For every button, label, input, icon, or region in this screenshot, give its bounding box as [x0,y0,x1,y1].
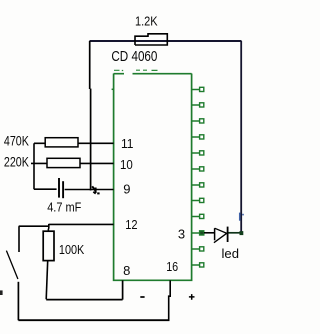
svg-text:1.2K: 1.2K [135,13,158,28]
svg-text:3: 3 [178,226,185,241]
resistor R2 470K: wires and body [34,142,114,144]
IC right-side pin stubs with terminal squares [192,90,200,266]
wire pin 16 drop [169,280,171,320]
stray green dashes above IC top edge [114,69,158,71]
wire 100K bottom lead [46,261,48,300]
svg-text:9: 9 [123,181,130,196]
svg-text:11: 11 [121,136,134,151]
switch S1 [18,226,20,252]
LED D1 [204,232,215,234]
wire right vertical (rail down to LED) [240,41,242,233]
svg-text:CD 4060: CD 4060 [111,49,157,65]
wire left bus vertical (joins 470K/220K/cap) [33,143,35,189]
blue ink mark on right rail [239,213,241,221]
capacitor C1 4.7mF [34,188,57,190]
svg-text:12: 12 [125,217,137,232]
node junction LED/rail [240,231,244,235]
resistor R4 100K body [43,231,54,260]
svg-text:220K: 220K [4,155,29,170]
wire left vertical (rail down to capacitor junction) [89,41,91,89]
stray mark left edge [0,290,3,295]
svg-text:10: 10 [120,157,133,172]
wire pin 12 horizontal [19,224,114,231]
IC U1 CD4060 box [114,74,192,281]
left-edge pin tick [112,88,114,90]
node junction scribble at cap / pin 9 [92,186,99,194]
label + (battery plus) [189,294,195,300]
resistor R1 1.2K body [135,34,167,45]
resistor R3 220K: wires and body [31,162,114,164]
svg-text:4.7 mF: 4.7 mF [47,199,81,214]
wire bottom return [18,319,169,321]
wire battery minus run (to pin 8) [46,280,122,299]
svg-text:led: led [222,246,240,261]
label - (battery minus) [140,296,144,298]
wire top horizontal (1.2K supply rail) [90,40,242,42]
svg-text:100K: 100K [59,242,85,257]
svg-text:16: 16 [166,259,178,274]
svg-text:8: 8 [123,263,130,278]
svg-text:470K: 470K [4,134,29,149]
